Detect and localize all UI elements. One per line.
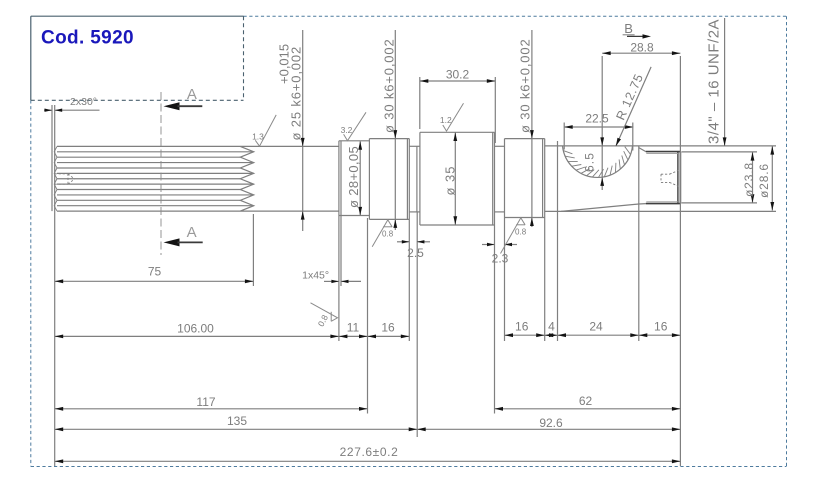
svg-text:ø 28+0,05: ø 28+0,05 <box>346 146 361 208</box>
svg-text:ø23.8: ø23.8 <box>742 162 756 197</box>
svg-text:ø 25 k6+0,002: ø 25 k6+0,002 <box>289 46 304 141</box>
svg-text:B: B <box>624 21 633 36</box>
svg-text:A: A <box>187 224 197 241</box>
svg-text:16: 16 <box>381 321 395 335</box>
svg-text:135: 135 <box>227 414 247 428</box>
svg-text:11: 11 <box>347 321 360 335</box>
svg-text:ø28.6: ø28.6 <box>757 163 771 198</box>
svg-text:A: A <box>187 86 197 103</box>
svg-text:22.5: 22.5 <box>585 112 609 126</box>
svg-text:1x45°: 1x45° <box>302 270 329 282</box>
svg-text:62: 62 <box>579 394 593 408</box>
svg-text:ø 30 k6+0,002: ø 30 k6+0,002 <box>382 38 397 133</box>
svg-text:0.8: 0.8 <box>515 228 527 237</box>
svg-text:ø 30 k6+0,002: ø 30 k6+0,002 <box>518 38 533 133</box>
svg-text:0.8: 0.8 <box>316 313 331 328</box>
svg-text:117: 117 <box>196 395 215 409</box>
svg-text:1.3: 1.3 <box>252 132 264 142</box>
svg-text:Cod. 5920: Cod. 5920 <box>41 28 134 49</box>
svg-text:1.2: 1.2 <box>440 115 452 125</box>
svg-text:2.3: 2.3 <box>492 252 509 266</box>
svg-text:106.00: 106.00 <box>177 322 214 336</box>
svg-text:92.6: 92.6 <box>539 416 563 430</box>
svg-text:30.2: 30.2 <box>446 68 470 82</box>
svg-text:24: 24 <box>589 320 603 334</box>
svg-text:0.8: 0.8 <box>382 230 394 239</box>
svg-text:75: 75 <box>148 265 162 279</box>
svg-text:3/4" – 16 UNF/2A: 3/4" – 16 UNF/2A <box>706 19 723 144</box>
svg-text:6.5: 6.5 <box>583 152 597 172</box>
svg-text:3.2: 3.2 <box>341 125 353 135</box>
svg-text:227.6±0.2: 227.6±0.2 <box>340 445 399 459</box>
svg-text:2.5: 2.5 <box>407 246 424 260</box>
svg-text:16: 16 <box>654 320 668 334</box>
svg-text:ø 35: ø 35 <box>443 165 458 195</box>
svg-text:16: 16 <box>515 320 529 334</box>
svg-text:28.8: 28.8 <box>630 41 654 55</box>
svg-text:2x30°: 2x30° <box>70 96 97 108</box>
svg-text:4: 4 <box>548 320 555 334</box>
